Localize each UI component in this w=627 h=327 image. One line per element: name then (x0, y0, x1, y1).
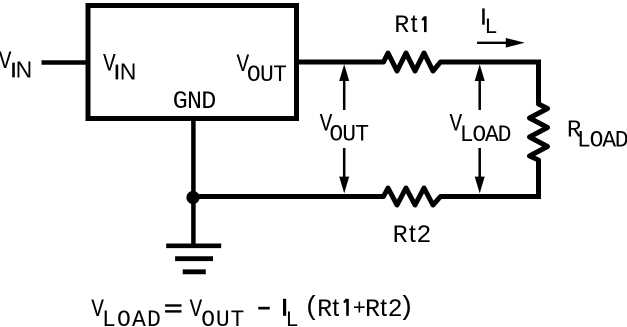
svg-text:OUT: OUT (247, 62, 286, 88)
label R_LOAD (567, 117, 627, 153)
label I_L (482, 8, 497, 40)
svg-text:L: L (484, 15, 497, 40)
svg-text:N: N (16, 56, 33, 82)
pin label V_IN (inside box) (103, 50, 136, 84)
regulator U1 box (88, 6, 297, 119)
resistor R_LOAD (530, 104, 548, 160)
measurement arrow V_OUT (down) (339, 148, 349, 193)
svg-text:t: t (380, 294, 387, 322)
svg-text:2: 2 (416, 221, 431, 250)
label V_OUT (measurement) (320, 110, 369, 148)
measurement arrow V_LOAD (down) (475, 148, 485, 193)
svg-text:+: + (353, 297, 366, 322)
svg-text:R: R (317, 295, 332, 324)
svg-text:LOAD: LOAD (460, 122, 511, 148)
pin label V_OUT (inside box) (236, 51, 286, 88)
resistor Rt1 (384, 53, 441, 71)
wire: GND pin down to junction (191, 119, 196, 198)
svg-text:t: t (411, 10, 418, 38)
wire: R_LOAD to bottom-right corner, left to Rt2 (441, 160, 542, 199)
measurement arrow V_LOAD (up) (475, 64, 485, 110)
resistor Rt2 (384, 188, 441, 205)
svg-text:N: N (120, 58, 137, 84)
wire: V_OUT pin to Rt1 (297, 60, 384, 65)
svg-text:R: R (393, 221, 408, 250)
svg-text:OUT: OUT (201, 307, 245, 327)
pin label GND (inside box) (173, 87, 216, 116)
wire: Rt1 to top-right corner, down right rail to R_LOAD (441, 60, 539, 105)
svg-text:L: L (286, 308, 298, 327)
wire: input lead to V_IN pin (42, 60, 86, 65)
label Rt2 (393, 220, 432, 250)
svg-text:LOAD: LOAD (577, 128, 627, 154)
svg-text:LOAD: LOAD (102, 307, 162, 327)
svg-text:t: t (332, 294, 339, 322)
svg-text:OUT: OUT (329, 122, 368, 148)
ground (166, 246, 221, 272)
measurement arrow V_OUT (up) (339, 64, 349, 110)
svg-text:GND: GND (173, 87, 216, 116)
node V_IN input label (0, 48, 32, 83)
node junction dot (186, 191, 199, 204)
svg-text:R: R (365, 295, 380, 324)
wire: junction to ground (191, 198, 196, 246)
svg-text:V: V (0, 48, 12, 76)
svg-text:R: R (394, 11, 409, 40)
wire: Rt2 to ground junction (193, 194, 383, 199)
equation V_LOAD = V_OUT - I_L (Rt1+Rt2) (91, 294, 414, 327)
current arrow I_L (477, 38, 525, 48)
svg-text:t: t (409, 220, 416, 248)
label V_LOAD (measurement) (450, 110, 511, 148)
svg-text:): ) (398, 294, 414, 324)
label Rt1 (394, 10, 426, 40)
svg-text:V: V (103, 50, 116, 78)
